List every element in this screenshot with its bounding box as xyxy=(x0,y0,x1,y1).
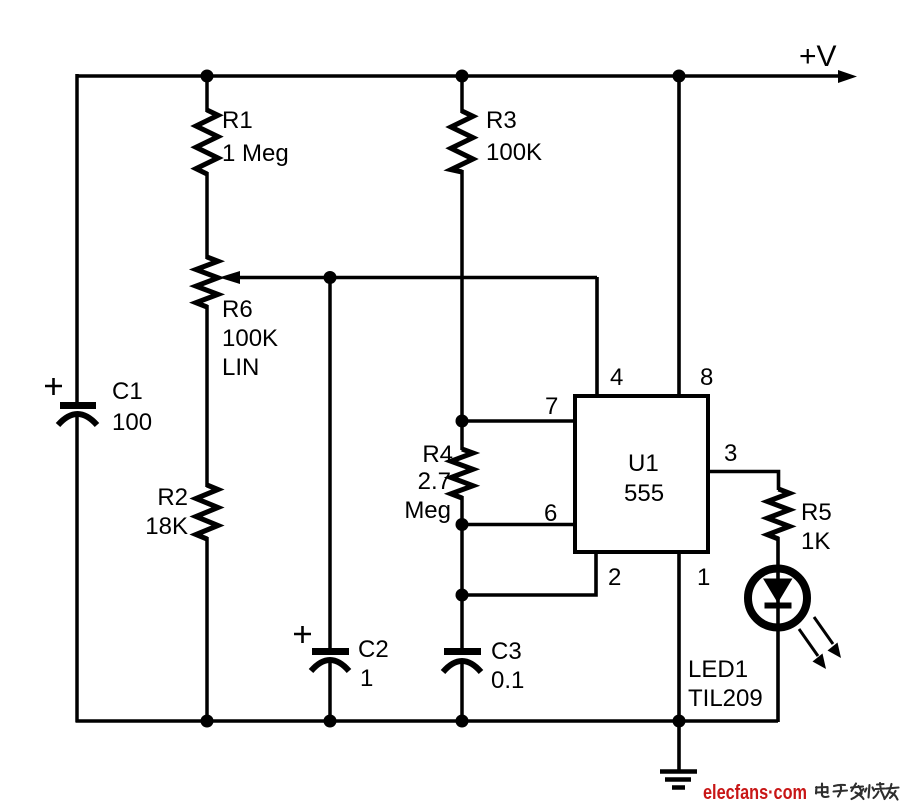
svg-text:C1: C1 xyxy=(112,378,143,405)
resistor R2 xyxy=(196,485,218,539)
svg-text:elecfans·com: elecfans·com xyxy=(703,782,807,804)
capacitor C1 xyxy=(58,402,97,425)
LED LED1 circle xyxy=(748,569,807,628)
svg-text:100: 100 xyxy=(112,409,152,436)
svg-text:8: 8 xyxy=(700,364,713,391)
wire: R5 to LED to bottom rail xyxy=(776,537,780,722)
wire: C2 branch vertical xyxy=(328,277,332,649)
svg-text:1 Meg: 1 Meg xyxy=(222,140,289,167)
capacitor C2 xyxy=(311,648,349,671)
svg-text:R3: R3 xyxy=(486,107,517,134)
svg-text:R6: R6 xyxy=(222,296,253,323)
wire: R2 to bottom rail xyxy=(205,537,209,722)
svg-text:1: 1 xyxy=(360,665,373,692)
svg-text:0.1: 0.1 xyxy=(491,667,524,694)
LED light arrow 2 xyxy=(814,617,841,658)
wire: R1 to R6 xyxy=(205,172,209,259)
svg-text:3: 3 xyxy=(724,440,737,467)
wire: pin 1 vertical xyxy=(677,552,681,722)
node: junction dot bottom rail C3 xyxy=(456,715,469,728)
wire: left branch (C1) vertical xyxy=(75,74,79,403)
svg-text:TIL209: TIL209 xyxy=(688,685,763,712)
wire: pin 8 vertical xyxy=(677,76,681,396)
wire: R1 branch vertical xyxy=(205,76,209,112)
wire: top +V rail xyxy=(77,74,841,78)
svg-text:C2: C2 xyxy=(358,636,389,663)
svg-text:Meg: Meg xyxy=(404,497,451,524)
svg-text:R5: R5 xyxy=(801,499,832,526)
wire: bottom ground rail xyxy=(76,719,779,723)
svg-text:LIN: LIN xyxy=(222,354,259,381)
wire: C3 to bottom rail xyxy=(460,659,464,722)
resistor R5 xyxy=(768,489,790,539)
node: junction dot top rail R3 xyxy=(456,70,469,83)
svg-text:4: 4 xyxy=(610,364,623,391)
svg-text:R2: R2 xyxy=(157,484,188,511)
wire: pin 6 horizontal xyxy=(462,523,575,527)
wire: ground stub xyxy=(677,721,681,770)
svg-text:100K: 100K xyxy=(222,325,278,352)
svg-text:+V: +V xyxy=(799,40,837,73)
svg-text:7: 7 xyxy=(545,393,558,420)
node: junction dot bottom rail ground xyxy=(673,715,686,728)
svg-text:2.7: 2.7 xyxy=(418,468,451,495)
resistor R3 xyxy=(451,111,473,172)
wire: R4 to C3 xyxy=(460,496,464,649)
svg-text:6: 6 xyxy=(544,500,557,527)
svg-text:1K: 1K xyxy=(801,528,830,555)
node: junction dot wiper wire C2 branch xyxy=(324,271,337,284)
wire: pin 2 xyxy=(462,552,596,595)
wire: R3 branch vertical xyxy=(460,76,464,113)
LED LED1 anode triangle xyxy=(763,579,793,604)
elecfans watermark Chinese characters xyxy=(816,783,899,800)
capacitor C1 plus sign xyxy=(45,378,62,395)
potentiometer R6 xyxy=(196,257,218,307)
+V arrowhead xyxy=(838,70,857,83)
wire: pin 4 vertical xyxy=(595,277,599,396)
op-amp U1 555 timer box xyxy=(575,396,708,552)
svg-text:1: 1 xyxy=(697,564,710,591)
wire: pin 7 horizontal xyxy=(462,419,575,423)
resistor R4 xyxy=(451,449,473,498)
wire: R6 to R2 xyxy=(205,305,209,487)
potentiometer R6 wiper arrow xyxy=(219,271,597,284)
node: junction dot bottom rail C2 xyxy=(324,715,337,728)
svg-text:2: 2 xyxy=(608,564,621,591)
node: junction dot pin7 R4 xyxy=(456,415,469,428)
LED light arrow 1 xyxy=(799,629,826,669)
svg-text:555: 555 xyxy=(624,480,664,507)
svg-text:100K: 100K xyxy=(486,139,542,166)
node: junction dot bottom rail R2 xyxy=(201,715,214,728)
svg-text:LED1: LED1 xyxy=(688,656,748,683)
svg-text:R1: R1 xyxy=(222,107,253,134)
svg-text:18K: 18K xyxy=(145,513,188,540)
wire: pin 3 to R5 xyxy=(708,472,779,491)
capacitor C2 plus sign xyxy=(294,626,311,643)
LED LED1 cathode bar xyxy=(765,603,792,609)
svg-text:R4: R4 xyxy=(422,441,453,468)
capacitor C3 xyxy=(443,648,481,672)
ground xyxy=(660,772,697,788)
wire: R3 to pin7 node xyxy=(460,170,464,450)
node: junction dot pin2 C3 xyxy=(456,589,469,602)
svg-text:C3: C3 xyxy=(491,638,522,665)
node: junction dot pin6 R4 xyxy=(456,518,469,531)
node: junction dot top rail R1 xyxy=(201,70,214,83)
node: junction dot top rail pin8 xyxy=(673,70,686,83)
resistor R1 xyxy=(196,110,218,174)
svg-text:U1: U1 xyxy=(628,450,659,477)
